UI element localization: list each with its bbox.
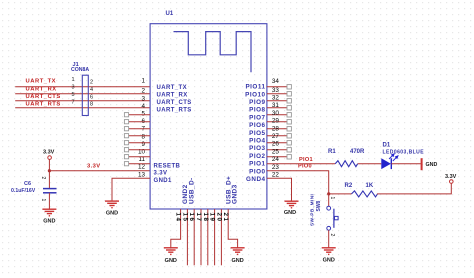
svg-text:GND: GND bbox=[165, 258, 177, 264]
svg-text:PIO7: PIO7 bbox=[249, 114, 265, 121]
svg-text:18: 18 bbox=[202, 213, 209, 223]
svg-text:UART_TX: UART_TX bbox=[26, 79, 57, 85]
svg-text:16: 16 bbox=[188, 213, 195, 223]
switch actuator bar bbox=[333, 209, 335, 228]
svg-text:32: 32 bbox=[272, 95, 280, 102]
svg-text:PIO2: PIO2 bbox=[249, 153, 265, 160]
U1 left NC stub pins 5-12 bbox=[129, 115, 151, 164]
U1 left pin numbers 1-13 bbox=[138, 77, 146, 178]
wire R2 to 3.3V rail bbox=[377, 183, 451, 194]
ground symbol bottom-left bbox=[164, 248, 178, 255]
svg-text:PIO9: PIO9 bbox=[249, 99, 265, 106]
U1 right pin numbers 34-22 bbox=[272, 78, 280, 178]
svg-text:13: 13 bbox=[138, 171, 146, 178]
svg-text:PIO10: PIO10 bbox=[245, 91, 265, 98]
svg-text:GND: GND bbox=[106, 210, 118, 216]
svg-text:2: 2 bbox=[329, 234, 335, 237]
wire junction to C6 top bbox=[48, 171, 50, 188]
wire 3.3V circle to junction bbox=[48, 159, 50, 170]
LED D1 cathode bar bbox=[390, 158, 392, 169]
svg-text:3.3V: 3.3V bbox=[87, 163, 101, 169]
svg-text:GND1: GND1 bbox=[154, 178, 173, 184]
wire R1 to D1 bbox=[358, 163, 382, 165]
svg-text:31: 31 bbox=[272, 102, 280, 109]
svg-text:3.3V: 3.3V bbox=[154, 171, 168, 177]
junction 3.3V rail bbox=[48, 169, 51, 172]
wire UART_TX row bbox=[15, 86, 150, 88]
U1 bottom pin wires 14-21 bbox=[171, 209, 238, 265]
svg-text:29: 29 bbox=[272, 118, 280, 125]
wire UART_CTS row bbox=[15, 100, 150, 102]
svg-text:1: 1 bbox=[329, 197, 335, 200]
svg-text:PIO4: PIO4 bbox=[249, 138, 265, 145]
switch bottom contact bbox=[327, 226, 331, 230]
svg-text:21: 21 bbox=[222, 213, 229, 223]
svg-text:3: 3 bbox=[71, 84, 74, 90]
wire PIO1 pin23 to R1 bbox=[267, 163, 335, 165]
svg-text:1: 1 bbox=[40, 199, 46, 202]
svg-text:8: 8 bbox=[141, 133, 145, 140]
U1 bottom pin names GND2 USB_D- USB_D+ GND3 (rotated) bbox=[182, 176, 239, 204]
capacitor C6 plates bbox=[43, 188, 57, 190]
svg-text:PIO5: PIO5 bbox=[249, 130, 265, 137]
svg-text:4: 4 bbox=[90, 87, 93, 93]
svg-text:SW8: SW8 bbox=[316, 200, 322, 211]
svg-text:15: 15 bbox=[181, 213, 188, 223]
switch top contact bbox=[327, 206, 331, 210]
svg-text:20: 20 bbox=[215, 213, 222, 223]
U1 pin names PIO11-PIO0, GND4 bbox=[245, 84, 265, 183]
svg-text:22: 22 bbox=[272, 172, 280, 179]
svg-text:GND: GND bbox=[284, 210, 296, 216]
svg-text:24: 24 bbox=[272, 156, 280, 163]
wire junction to R2 bbox=[329, 193, 352, 195]
junction PIO0 R2 switch bbox=[327, 192, 330, 195]
svg-text:GND: GND bbox=[43, 218, 55, 224]
U1 right NC squares pins 34-24 bbox=[287, 85, 291, 159]
GND power bar bbox=[421, 158, 423, 170]
svg-text:UART_CTS: UART_CTS bbox=[26, 94, 61, 100]
svg-text:UART_RX: UART_RX bbox=[157, 93, 188, 99]
svg-text:PIO0: PIO0 bbox=[249, 168, 265, 175]
LED D1 triangle bbox=[381, 158, 391, 169]
IC U1 body bbox=[150, 24, 267, 209]
svg-text:USB_D-: USB_D- bbox=[189, 177, 196, 204]
svg-text:1: 1 bbox=[141, 77, 145, 84]
svg-text:17: 17 bbox=[195, 213, 202, 223]
svg-text:1: 1 bbox=[71, 77, 74, 83]
ground symbol GND1 bbox=[105, 201, 119, 208]
svg-text:3: 3 bbox=[141, 95, 145, 102]
wire D1 to GND bar bbox=[391, 163, 421, 165]
svg-text:CON8A: CON8A bbox=[71, 67, 89, 73]
svg-text:33: 33 bbox=[272, 87, 280, 94]
svg-text:LED0603,BLUE: LED0603,BLUE bbox=[383, 150, 425, 156]
svg-text:5: 5 bbox=[141, 111, 145, 118]
ground symbol under switch bbox=[322, 248, 336, 255]
svg-text:0.1uF/16V: 0.1uF/16V bbox=[11, 188, 36, 194]
svg-text:GND3: GND3 bbox=[232, 184, 239, 204]
svg-text:PIO1: PIO1 bbox=[249, 161, 265, 168]
svg-text:SW-PB_MINI: SW-PB_MINI bbox=[310, 193, 316, 226]
antenna inside U1 bbox=[174, 32, 252, 73]
ground symbol bottom-right bbox=[231, 248, 245, 255]
wire 3.3V rail to U1 pin 13 bbox=[49, 170, 150, 172]
svg-text:UART_TX: UART_TX bbox=[157, 85, 187, 91]
svg-text:PIO11: PIO11 bbox=[245, 84, 265, 91]
ground symbol under C6 bbox=[42, 209, 56, 216]
svg-text:27: 27 bbox=[272, 133, 280, 140]
svg-text:UART_RX: UART_RX bbox=[26, 86, 57, 92]
svg-text:3.3V: 3.3V bbox=[43, 150, 55, 156]
svg-text:R1: R1 bbox=[328, 149, 336, 155]
svg-text:14: 14 bbox=[175, 213, 182, 223]
svg-text:6: 6 bbox=[90, 94, 93, 100]
svg-text:470R: 470R bbox=[350, 149, 365, 155]
ground symbol GND4 bbox=[285, 201, 299, 208]
svg-text:3.3V: 3.3V bbox=[445, 174, 457, 180]
svg-text:PIO8: PIO8 bbox=[249, 107, 265, 114]
wire junction to switch top bbox=[328, 194, 330, 206]
wire UART_RX row bbox=[15, 93, 150, 95]
svg-text:34: 34 bbox=[272, 78, 280, 85]
svg-text:UART_RTS: UART_RTS bbox=[26, 102, 61, 108]
svg-text:4: 4 bbox=[141, 103, 145, 110]
svg-text:9: 9 bbox=[141, 141, 145, 148]
svg-text:8: 8 bbox=[90, 101, 93, 107]
svg-text:U1: U1 bbox=[166, 11, 174, 17]
power 3.3V right circle bbox=[450, 180, 454, 184]
svg-text:25: 25 bbox=[272, 148, 280, 155]
U1 right NC stubs pins 34-24 bbox=[267, 87, 287, 157]
U1 left NC squares pins 5-12 bbox=[124, 113, 128, 166]
wire PIO0 pin22 down to junction bbox=[267, 171, 329, 194]
wire C6 bottom to ground bbox=[48, 193, 50, 209]
svg-text:PIO3: PIO3 bbox=[249, 145, 265, 152]
wire switch bottom to ground bbox=[328, 230, 330, 247]
wire GND1 to ground bbox=[112, 178, 150, 201]
svg-text:7: 7 bbox=[71, 100, 74, 106]
resistor R2 zigzag bbox=[352, 191, 378, 197]
svg-text:C6: C6 bbox=[24, 181, 31, 187]
svg-text:UART_RTS: UART_RTS bbox=[157, 108, 192, 114]
svg-text:PIO1: PIO1 bbox=[299, 157, 313, 163]
svg-text:30: 30 bbox=[272, 110, 280, 117]
U1 bottom pin numbers 14-21 (rotated) bbox=[175, 213, 230, 223]
svg-text:26: 26 bbox=[272, 141, 280, 148]
svg-text:2: 2 bbox=[90, 80, 93, 86]
svg-text:GND: GND bbox=[323, 258, 335, 264]
svg-text:12: 12 bbox=[138, 164, 146, 171]
svg-text:1K: 1K bbox=[366, 183, 374, 189]
LED D1 light arrows bbox=[389, 154, 398, 161]
switch actuator nub bbox=[335, 216, 339, 219]
wire GND4 to ground bbox=[267, 178, 292, 201]
svg-text:5: 5 bbox=[71, 92, 74, 98]
svg-text:PIO0: PIO0 bbox=[298, 163, 312, 169]
svg-text:23: 23 bbox=[272, 164, 280, 171]
svg-text:28: 28 bbox=[272, 125, 280, 132]
resistor R1 zigzag bbox=[335, 161, 358, 167]
svg-text:R2: R2 bbox=[345, 183, 353, 189]
svg-text:GND: GND bbox=[231, 258, 243, 264]
svg-text:19: 19 bbox=[209, 213, 216, 223]
svg-text:UART_CTS: UART_CTS bbox=[157, 100, 192, 106]
svg-text:D1: D1 bbox=[383, 143, 391, 149]
svg-text:2: 2 bbox=[141, 88, 145, 95]
svg-text:GND4: GND4 bbox=[246, 176, 266, 183]
connector J1 body bbox=[82, 75, 88, 115]
svg-text:2: 2 bbox=[40, 177, 46, 180]
svg-text:RESETB: RESETB bbox=[154, 163, 181, 169]
svg-text:PIO6: PIO6 bbox=[249, 122, 265, 129]
power 3.3V left circle bbox=[48, 156, 52, 160]
wire UART_RTS row bbox=[15, 107, 150, 109]
svg-text:GND: GND bbox=[426, 162, 438, 168]
